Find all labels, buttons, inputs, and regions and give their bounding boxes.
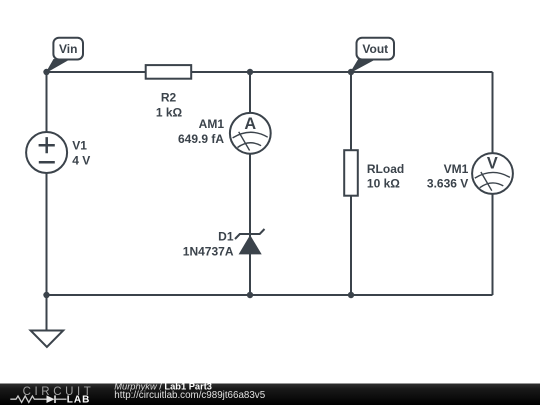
label: RLoad name [367, 162, 404, 176]
voltmeter VM1 [472, 153, 513, 194]
svg-text:A: A [244, 115, 256, 133]
svg-text:R2: R2 [161, 91, 177, 105]
junction dot: Vout node [348, 69, 354, 75]
svg-text:V: V [487, 154, 498, 172]
label: AM1 name [199, 117, 225, 131]
svg-text:http://circuitlab.com/c989jt66: http://circuitlab.com/c989jt66a83v5 [114, 390, 265, 401]
wire: RLoad branch vertical (Vout node to bottom rail) [350, 72, 352, 295]
footer text: title line [114, 382, 212, 392]
wire: ground stem [46, 295, 48, 331]
label: D1 name [218, 230, 234, 244]
svg-text:1N4737A: 1N4737A [183, 245, 234, 259]
voltage source V1 [26, 132, 67, 173]
wire: bottom rail [47, 294, 493, 296]
wire: top rail (Vin node to top-right corner) [47, 71, 493, 73]
zener diode D1 [235, 229, 265, 254]
resistor RLoad [344, 150, 358, 196]
label: V1 name [72, 139, 87, 153]
label: D1 value 1N4737A [183, 245, 234, 259]
footer bar [0, 384, 540, 405]
svg-text:Vout: Vout [362, 42, 388, 56]
label: V1 value 4 V [72, 154, 90, 168]
svg-text:1 kΩ: 1 kΩ [156, 106, 183, 120]
svg-text:Vin: Vin [59, 42, 77, 56]
svg-text:V1: V1 [72, 139, 87, 153]
svg-text:RLoad: RLoad [367, 162, 404, 176]
label: R2 name [161, 91, 177, 105]
footer logo: LAB [67, 395, 91, 405]
junction dot: node at R2/AM1 top [247, 69, 253, 75]
svg-text:AM1: AM1 [199, 117, 225, 131]
label: RLoad value 10 kΩ [367, 177, 400, 191]
wire: left branch vertical (Vin node through V1 to bottom rail) [46, 72, 48, 295]
svg-text:VM1: VM1 [444, 162, 469, 176]
svg-text:3.636 V: 3.636 V [427, 177, 468, 191]
junction dot: D1 branch at bottom rail [247, 292, 253, 298]
footer logo: CIRCUIT [23, 386, 95, 398]
ammeter AM1 [230, 113, 271, 154]
node Vin flag [47, 38, 84, 72]
svg-text:LAB: LAB [67, 395, 91, 405]
svg-text:4 V: 4 V [72, 154, 90, 168]
wire: AM1/D1 branch vertical [249, 72, 251, 295]
svg-text:649.9 fA: 649.9 fA [178, 132, 224, 146]
junction dot: RLoad branch at bottom rail [348, 292, 354, 298]
svg-text:10 kΩ: 10 kΩ [367, 177, 400, 191]
label: AM1 value 649.9 fA [178, 132, 224, 146]
label: VM1 name [444, 162, 469, 176]
footer text: url line [114, 390, 265, 401]
node Vout flag [351, 38, 394, 72]
junction dot: ground node on bottom rail [43, 292, 49, 298]
resistor R2 [146, 65, 192, 79]
footer logo: wire-resistor-diode glyph [10, 395, 66, 403]
svg-text:D1: D1 [218, 230, 234, 244]
junction dot: Vin node [43, 69, 49, 75]
label: R2 value 1 kΩ [156, 106, 183, 120]
wire: VM1 branch vertical (right side) [492, 72, 494, 295]
ground [31, 331, 64, 348]
label: VM1 value 3.636 V [427, 177, 468, 191]
